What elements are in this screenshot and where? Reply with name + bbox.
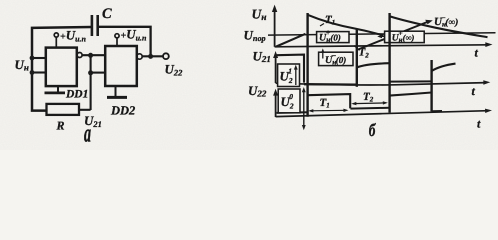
switching line t3 (jump of Uн, edges of U21/U22) — [388, 13, 390, 113]
voltage axis of trace U21 — [275, 54, 277, 83]
dimension arrows T1 (bottom) — [310, 109, 347, 112]
wire: node to DD2 input 2 — [91, 72, 106, 74]
junction dot input node upper — [30, 56, 35, 61]
wire: DD1 input 1 — [33, 57, 46, 59]
svg-text:U20: U20 — [281, 92, 294, 110]
wire: DD2 output to terminal — [142, 55, 163, 57]
junction dot feedback node — [148, 54, 153, 59]
wire: output node vertical to resistor — [90, 55, 92, 110]
waveform U22 last low — [432, 110, 442, 112]
time axis of trace U21 — [276, 83, 487, 85]
pointer arrow and label Uн-(inf) — [425, 20, 433, 25]
waveform U21 low second — [390, 80, 432, 82]
svg-text:C: C — [102, 6, 112, 22]
voltage axis of trace Uн — [274, 9, 276, 47]
inversion bubble of DD1 output — [77, 53, 82, 58]
junction dot output node lower — [88, 70, 93, 75]
wire: DD1 output to node — [82, 54, 105, 56]
power terminal +Uип of DD1 — [54, 33, 58, 37]
waveform Uн rise during T2 with asymptote extension — [357, 22, 429, 51]
ground of DD1 — [57, 86, 59, 92]
waveform U22 low during T2 — [350, 107, 389, 110]
waveform U21 low during T1 — [304, 83, 357, 86]
wire: DD1 power pin stub — [55, 37, 57, 48]
logic gate DD2 body — [105, 46, 137, 86]
time axis of trace U22 — [276, 111, 488, 117]
junction dot input node lower — [30, 70, 35, 75]
output terminal U22 — [163, 53, 169, 59]
boxed level label U20 — [278, 89, 300, 113]
svg-text:R: R — [56, 119, 65, 133]
switching line t2 (drop of Uн, rise of U21) — [356, 29, 358, 87]
power terminal +Uип of DD2 — [115, 34, 119, 38]
ground of DD2 — [115, 86, 117, 96]
switching line t1 (jump of Uн, edge of all traces) — [306, 13, 308, 117]
waveform Uн decay during T1 with asymptote extension — [308, 15, 384, 36]
resistor R body — [47, 104, 80, 115]
capacitor C1 left plate — [91, 15, 94, 36]
dimension arrows T2 (bottom) — [353, 102, 386, 105]
waveform U22 high during T1 — [308, 94, 351, 108]
wire: capacitor to feedback corner — [99, 27, 151, 57]
svg-text:U21: U21 — [280, 67, 293, 85]
svg-text:DD1: DD1 — [65, 89, 88, 101]
waveform U21 high during T2 (sagged top) — [357, 63, 390, 67]
waveform U21 last high (sagged top) — [432, 64, 456, 71]
switching line t4 (rise of U21, drop of U22) — [430, 60, 432, 111]
boxed label Uн-(0) with pointer arrow — [319, 52, 353, 65]
wire: DD1 input 2 — [33, 71, 46, 73]
wire: resistor right lead — [79, 109, 91, 111]
voltage axis of trace U22 — [275, 92, 277, 117]
time axis of trace Uн — [275, 45, 488, 47]
logic gate DD1 body — [46, 48, 77, 87]
svg-text:б: б — [369, 121, 376, 141]
wire: left vertical bus with top feedback run and resistor lead — [32, 27, 91, 111]
waveform U21 static high level — [277, 55, 304, 83]
junction dot output node upper — [88, 53, 93, 58]
capacitor C1 right plate — [96, 15, 99, 36]
svg-text:DD2: DD2 — [110, 104, 135, 118]
wire: DD2 power pin stub — [116, 38, 118, 46]
threshold level line Uпор — [268, 33, 496, 35]
boxed label Uн+(0) — [317, 32, 349, 43]
inversion bubble of DD2 output — [137, 54, 142, 59]
dimension double arrow at U20 — [303, 90, 305, 127]
boxed level label U21 with dimension arrow — [278, 64, 300, 87]
waveform U22 second high — [390, 93, 432, 96]
svg-text:а: а — [84, 121, 91, 148]
boxed label Uн+(inf) with pointer arrow — [385, 31, 425, 42]
waveform Uн initial rise — [276, 34, 306, 47]
waveform Uн second decay — [390, 16, 488, 37]
waveform U22 low initial — [277, 111, 308, 114]
